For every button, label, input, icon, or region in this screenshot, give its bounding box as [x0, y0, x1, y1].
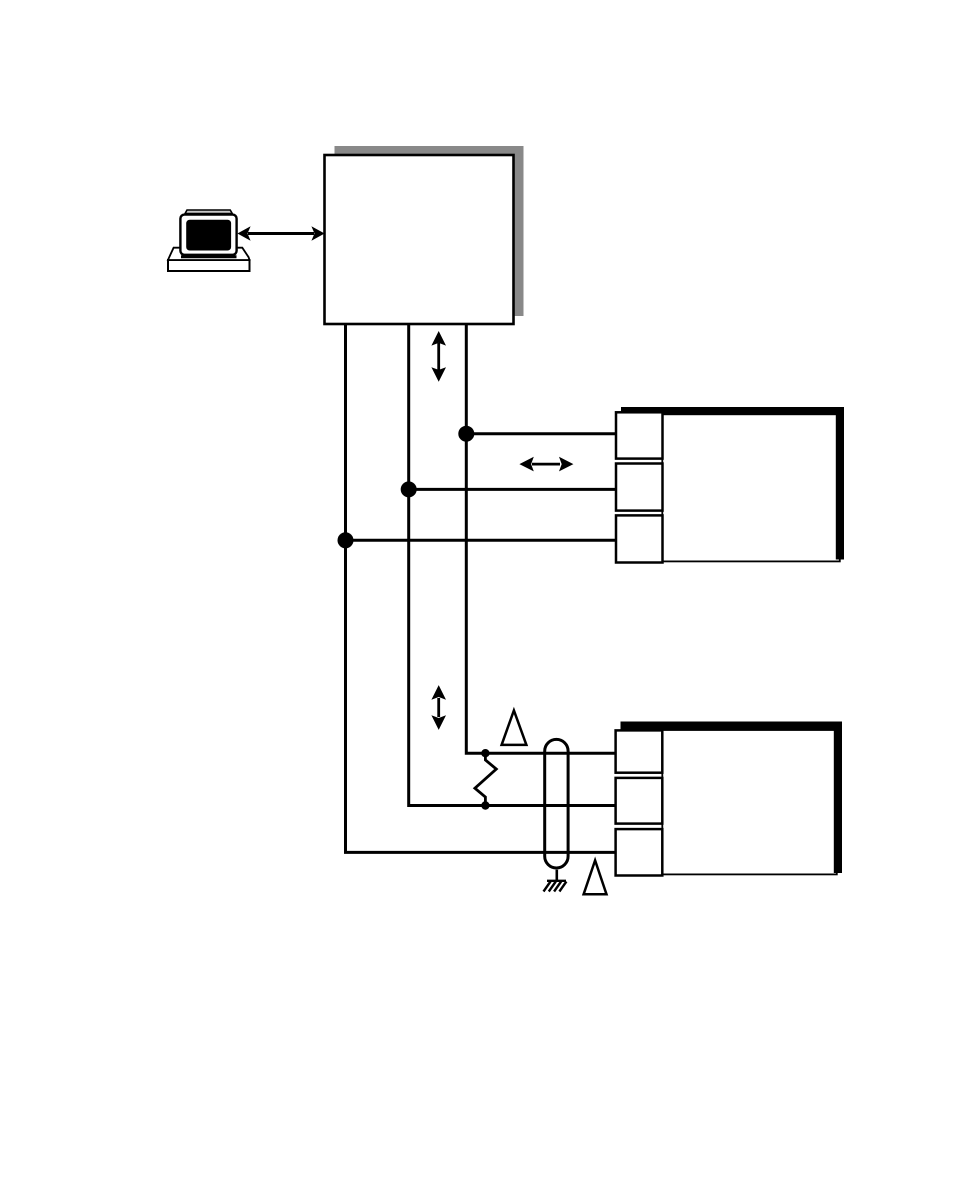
vertical double arrow (upper bus direction) — [431, 331, 446, 382]
cable: terminal to controller, double arrow — [237, 226, 324, 241]
lower device: terminal block 1 — [616, 730, 663, 772]
note triangle 1 — [502, 710, 527, 745]
upper device: terminal block 2 — [616, 464, 663, 511]
resistor node (bottom) — [481, 801, 489, 809]
upper device: terminal block 1 — [616, 412, 663, 458]
vertical double arrow (lower bus direction) — [431, 685, 446, 730]
junction node on bus line 3 — [458, 426, 474, 442]
wire: branch to upper device terminal 2 — [409, 488, 616, 491]
programming terminal (computer icon) — [168, 210, 250, 271]
upper device: thick top bar — [621, 407, 844, 415]
controller box — [325, 155, 514, 324]
shield ground lead — [555, 870, 558, 881]
horizontal double arrow (upper device link) — [519, 457, 573, 472]
lower device: terminal block 3 — [616, 829, 663, 875]
wire: bus line 2 (middle, to lower device terminal 2) — [409, 324, 616, 806]
junction node on bus line 1 — [338, 532, 354, 548]
lower device: body — [662, 730, 837, 874]
termination resistor zigzag — [475, 753, 496, 805]
chassis ground symbol — [544, 881, 567, 892]
lower device: thick right bar — [834, 722, 842, 874]
controller box shadow — [335, 146, 524, 316]
upper device: body — [662, 413, 840, 561]
lower device: thick top bar — [621, 722, 843, 730]
wire: bus line 1 (leftmost, to lower device terminal 3) — [346, 324, 616, 852]
cable shield capsule — [545, 739, 568, 868]
note triangle 2 — [584, 860, 607, 894]
upper device: terminal block 3 — [616, 515, 663, 562]
resistor node (top) — [481, 749, 489, 757]
wire: branch to upper device terminal 3 — [346, 539, 616, 542]
lower device: terminal block 2 — [616, 778, 663, 824]
upper device: thick right bar — [836, 407, 844, 560]
wire: branch to upper device terminal 1 — [466, 432, 616, 435]
junction node on bus line 2 — [401, 481, 417, 497]
wire: bus line 3 (right, to lower device terminal 1) — [466, 324, 616, 753]
